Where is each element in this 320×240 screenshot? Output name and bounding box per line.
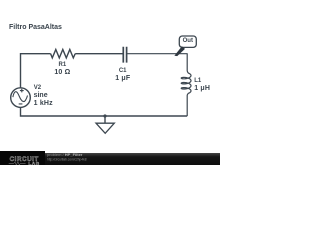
svg-text:LAB: LAB [28, 161, 40, 165]
